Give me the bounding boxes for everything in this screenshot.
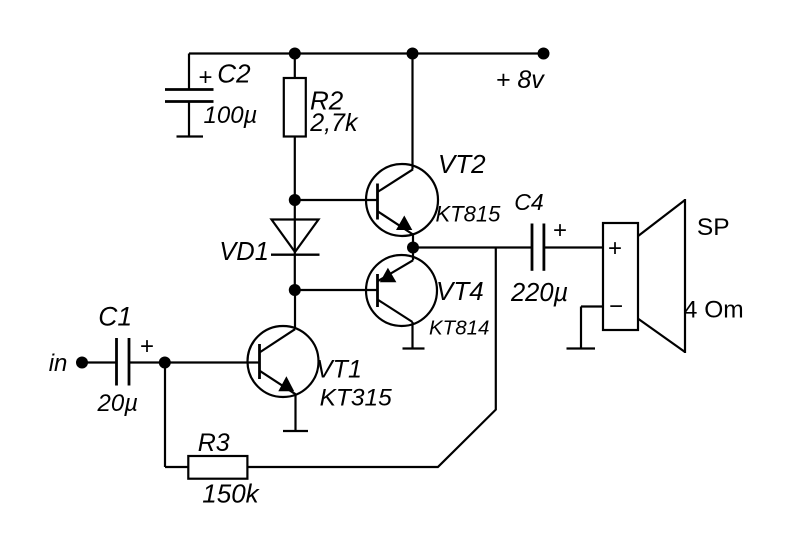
svg-text:C2: C2 — [217, 59, 251, 89]
svg-text:+: + — [140, 333, 154, 360]
svg-text:2,7k: 2,7k — [309, 109, 359, 137]
svg-text:150k: 150k — [202, 479, 260, 509]
svg-text:+ 8v: + 8v — [496, 66, 545, 94]
svg-text:+: + — [199, 64, 213, 91]
svg-text:in: in — [49, 350, 68, 377]
svg-text:VT1: VT1 — [316, 355, 362, 383]
svg-text:+: + — [553, 217, 567, 244]
svg-text:KT315: KT315 — [320, 384, 393, 411]
svg-text:VT2: VT2 — [438, 149, 486, 179]
svg-text:VD1: VD1 — [219, 238, 269, 266]
svg-text:R3: R3 — [198, 429, 230, 457]
svg-text:C1: C1 — [98, 302, 132, 332]
svg-text:−: − — [609, 293, 623, 320]
svg-text:220µ: 220µ — [510, 279, 568, 307]
svg-text:100µ: 100µ — [204, 102, 258, 129]
svg-text:KT814: KT814 — [429, 317, 489, 340]
svg-text:SP: SP — [697, 214, 730, 241]
svg-text:20µ: 20µ — [97, 390, 139, 417]
svg-text:KT815: KT815 — [436, 201, 502, 226]
svg-text:C4: C4 — [514, 189, 543, 215]
svg-text:+: + — [608, 235, 622, 262]
svg-text:4 Om: 4 Om — [684, 296, 744, 323]
svg-text:VT4: VT4 — [436, 276, 484, 306]
